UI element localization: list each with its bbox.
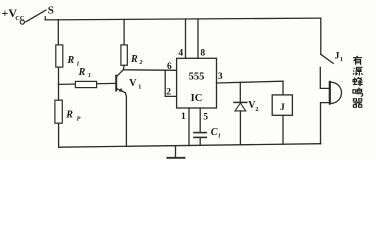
label 4 <box>178 49 183 59</box>
label 8 <box>200 49 205 59</box>
transistor V1 base bar <box>115 76 117 91</box>
wire: relay branch from pin3 wire <box>282 81 284 95</box>
wire: top rail right corner down <box>320 18 322 54</box>
svg-text:R: R <box>67 55 75 66</box>
top rail <box>45 18 321 20</box>
switch S terminal circle <box>20 20 24 24</box>
pin 8 lead <box>197 19 199 58</box>
label 有源蜂鸣器 (hand-drawn strokes) <box>353 56 363 107</box>
wire: J to bottom rail <box>282 115 284 144</box>
transistor V1 collector <box>117 70 124 77</box>
svg-text:1: 1 <box>340 56 343 63</box>
wire: collector node to pin6 <box>123 69 176 72</box>
ground <box>175 146 177 158</box>
wire: emitter down to bottom rail <box>125 93 126 147</box>
diode V2 <box>234 101 247 103</box>
buzzer dome <box>331 82 342 103</box>
wire: R2 to collector node <box>122 65 125 70</box>
transistor V1 emitter with arrow <box>117 89 126 93</box>
svg-text:1: 1 <box>88 72 91 79</box>
svg-text:2: 2 <box>138 59 142 66</box>
capacitor C1 <box>194 132 206 134</box>
resistor R1 (horizontal) <box>75 81 96 87</box>
svg-text:1: 1 <box>181 112 186 122</box>
wire: Rp bottom to bottom rail <box>58 123 60 147</box>
buzzer plate <box>329 82 331 104</box>
svg-text:P: P <box>77 115 81 122</box>
label J1 <box>335 51 343 63</box>
源 <box>353 67 363 75</box>
svg-text:R: R <box>130 54 138 65</box>
switch S blade <box>26 10 46 22</box>
svg-text:8: 8 <box>200 49 205 59</box>
base wire with R1 horizontal <box>58 83 115 84</box>
svg-text:J: J <box>280 103 285 113</box>
wire: R1 to base-node to Rp <box>58 67 60 100</box>
bottom rail <box>59 144 321 148</box>
svg-text:IC: IC <box>191 93 203 104</box>
器 <box>353 99 362 108</box>
svg-text:R: R <box>78 67 86 78</box>
IC 555 box <box>177 58 217 108</box>
svg-text:R: R <box>65 110 73 121</box>
svg-text:3: 3 <box>218 72 223 82</box>
wire: lower fixed contact to buzzer <box>320 67 328 88</box>
svg-text:1: 1 <box>218 133 221 140</box>
svg-text:2: 2 <box>255 106 258 113</box>
resistor R2 <box>121 45 127 65</box>
svg-text:555: 555 <box>189 72 205 83</box>
pin 5 lead <box>199 108 201 132</box>
svg-text:6: 6 <box>167 62 172 72</box>
wire: rail to R2 <box>123 19 125 45</box>
+Vcc label <box>2 6 25 22</box>
label 3 <box>218 72 223 82</box>
蜂 <box>353 77 363 86</box>
wire: drop to pin2 <box>165 71 176 97</box>
relay J box <box>272 95 292 115</box>
svg-text:5: 5 <box>203 112 208 122</box>
wire: V2 to bottom rail <box>239 111 241 145</box>
svg-text:J: J <box>335 51 340 61</box>
resistor R1 (vertical) <box>56 45 63 67</box>
label 1 <box>181 112 186 122</box>
有 <box>353 56 362 65</box>
wire: C1 to bottom rail <box>199 138 201 145</box>
wire: V2 branch from pin3 wire <box>239 82 241 102</box>
label V1 <box>129 78 141 91</box>
svg-text:4: 4 <box>178 49 183 59</box>
label 2 <box>166 87 171 97</box>
svg-text:S: S <box>48 5 54 17</box>
label 5 <box>203 112 208 122</box>
svg-text:V: V <box>129 78 137 89</box>
pin 3 wire <box>217 81 284 83</box>
buzzer bottom terminal wire to bottom rail <box>321 103 329 144</box>
label 6 <box>167 62 172 72</box>
wire: left branch top (rail to R1) <box>57 20 59 45</box>
label S <box>48 5 54 17</box>
pin 4 lead <box>185 19 187 58</box>
svg-text:C: C <box>211 127 218 138</box>
svg-text:2: 2 <box>166 87 171 97</box>
svg-text:1: 1 <box>138 84 141 91</box>
resistor Rp <box>55 100 62 123</box>
pin 1 lead <box>188 108 190 146</box>
relay contact J1 blade <box>321 54 333 63</box>
switch S fixed contact tick <box>44 17 46 20</box>
鸣 <box>353 88 363 97</box>
